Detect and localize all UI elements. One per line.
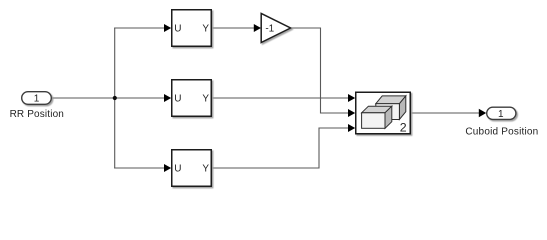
svg-text:Y: Y [202,94,209,105]
selector block S3 (bottom) [172,150,212,187]
wire: bottom selector to concat port3 [212,128,349,168]
svg-text:RR Position: RR Position [10,109,64,120]
gain block -1 [261,13,290,42]
svg-text:Cuboid Position: Cuboid Position [465,126,538,137]
svg-text:U: U [174,24,181,35]
wire: branch to bottom selector [114,167,164,169]
svg-text:Y: Y [202,164,209,175]
wire: branch to top selector [114,27,164,29]
wire: middle selector to concat port1 [212,97,349,99]
arrowhead into middle selector [164,94,171,102]
concatenate block [356,92,411,134]
wire: inport to middle selector [52,97,165,99]
svg-text:Y: Y [202,24,209,35]
arrowhead into outport [479,109,486,117]
svg-text:2: 2 [400,121,407,135]
svg-text:-1: -1 [265,24,274,35]
arrowhead into concat port3 [348,124,355,132]
concat icon: back cuboid top face [376,96,406,104]
concat icon: front cuboid front face [362,113,385,129]
inport 1 [22,92,52,105]
arrowhead into gain [254,24,261,32]
selector block S1 (top) [172,10,212,47]
svg-text:U: U [174,94,181,105]
outport 1 [487,107,516,119]
selector block S2 (middle) [172,80,212,117]
svg-text:1: 1 [498,109,504,120]
concat icon: back cuboid front face [376,104,400,120]
wire: vertical branch [114,28,116,169]
wire: gain to concat port2 [291,28,349,113]
concat icon: front cuboid right face [385,106,392,128]
concat icon: back cuboid right face [399,96,405,120]
arrowhead into concat port2 [348,109,355,117]
arrowhead into bottom selector [164,164,171,172]
concat icon: front cuboid top face [362,106,392,113]
wire: top selector to gain [212,27,255,29]
junction node [113,96,117,100]
svg-text:U: U [174,164,181,175]
svg-text:1: 1 [34,94,40,105]
wire: concat to outport [411,112,480,114]
arrowhead into concat port1 [348,94,355,102]
arrowhead into top selector [164,24,171,32]
